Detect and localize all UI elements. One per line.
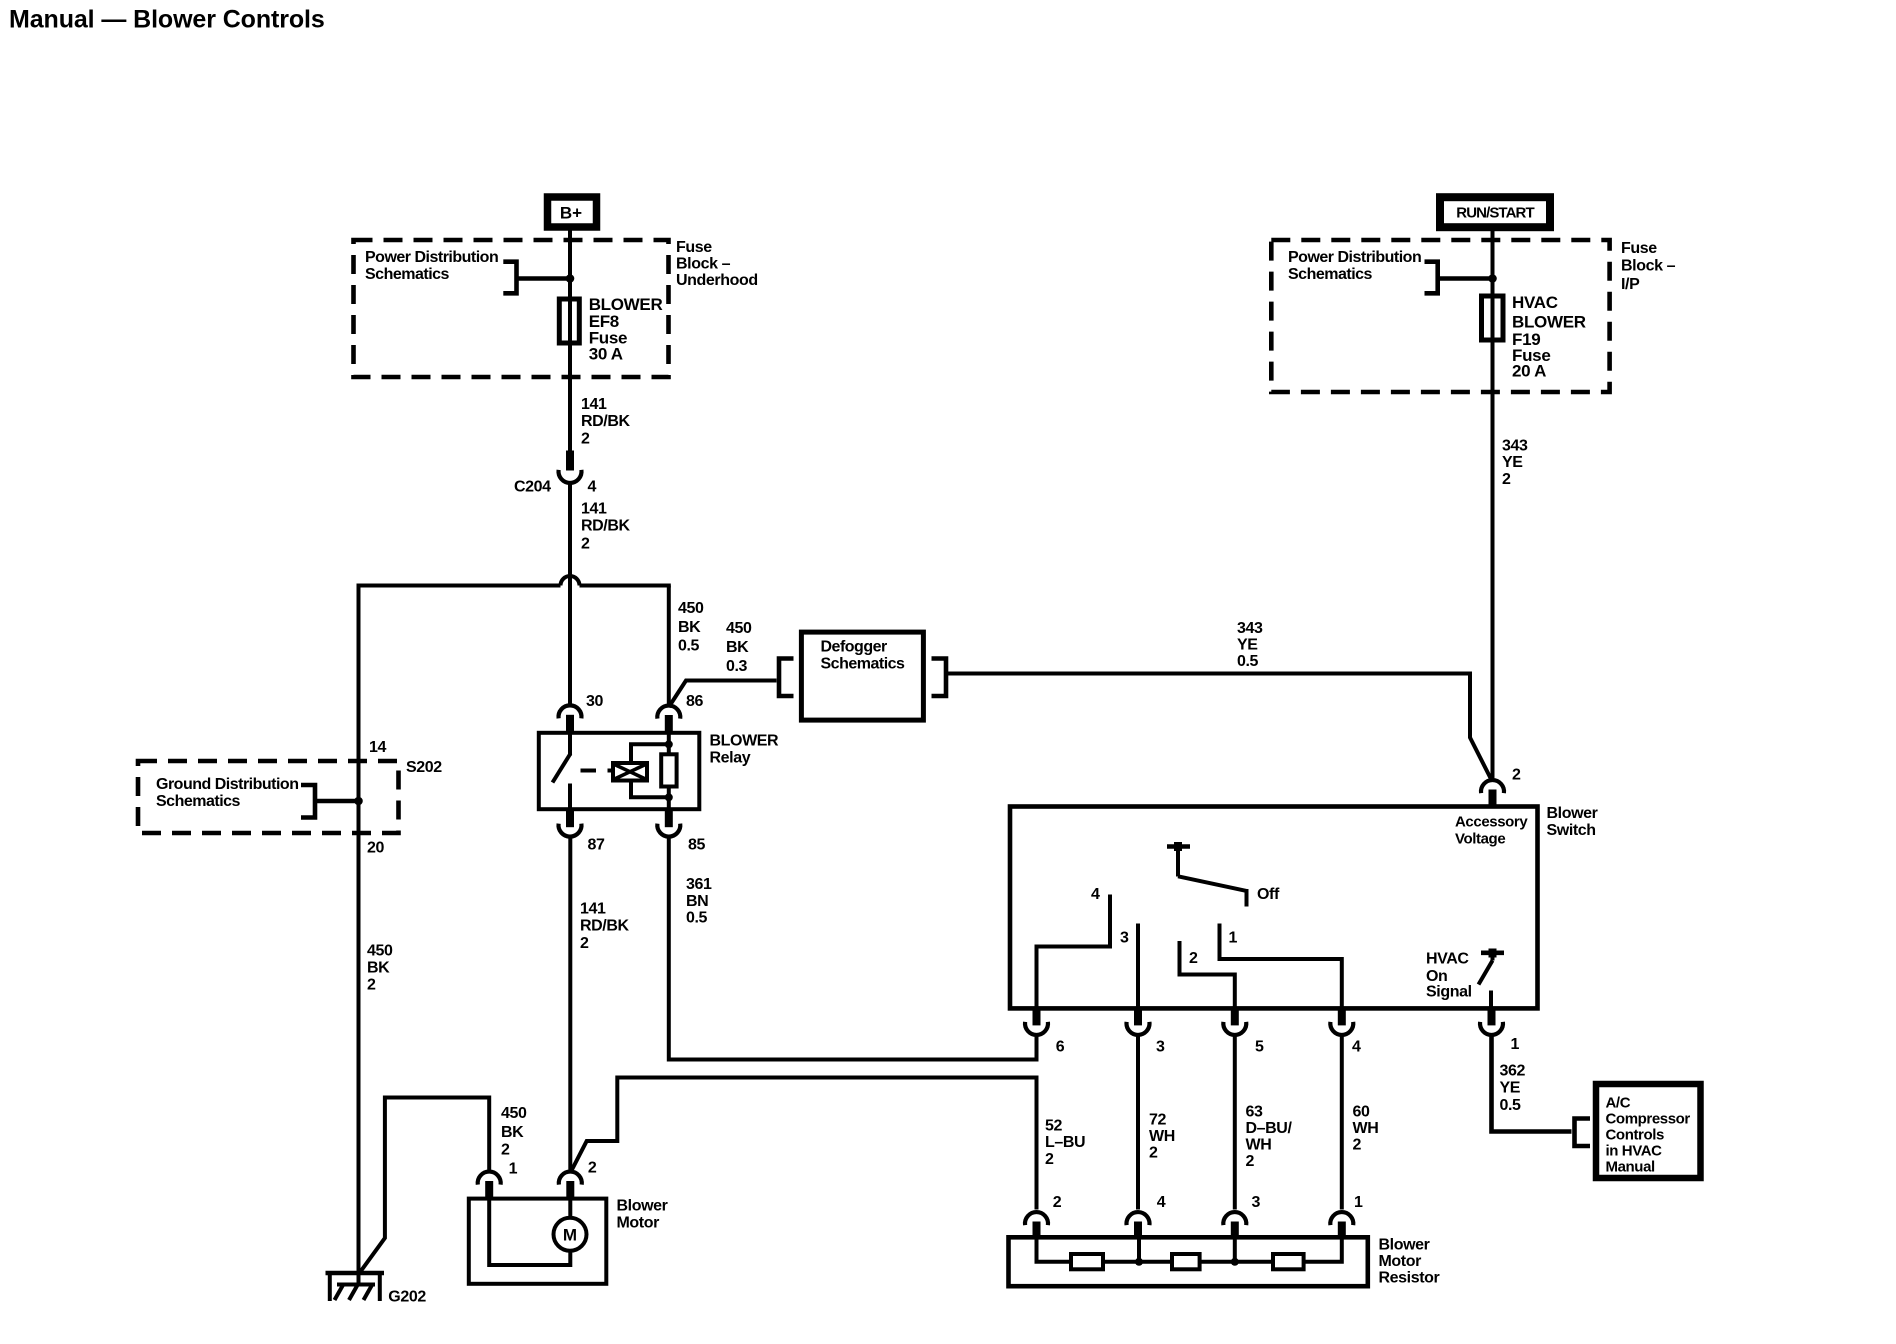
svg-text:YE: YE	[1502, 454, 1523, 471]
label BLOWER Relay	[710, 733, 780, 767]
svg-text:6: 6	[1056, 1039, 1065, 1056]
wire label 141 RD/BK 2 (below C204)	[581, 501, 631, 553]
svg-text:141: 141	[580, 901, 606, 918]
svg-text:On: On	[1426, 968, 1447, 985]
svg-text:RD/BK: RD/BK	[581, 413, 631, 430]
resistor element 1	[1071, 1254, 1103, 1269]
svg-text:3: 3	[1156, 1039, 1165, 1056]
node junction dot S202	[354, 797, 363, 806]
motor M symbol	[554, 1218, 587, 1251]
svg-text:Ground Distribution: Ground Distribution	[156, 776, 298, 793]
svg-text:343: 343	[1502, 438, 1528, 455]
wire ground horizontal right segment	[580, 584, 671, 588]
relay internal resistor	[661, 754, 676, 786]
svg-text:450: 450	[367, 943, 393, 960]
svg-text:2: 2	[1189, 950, 1198, 967]
node dot resistor b	[1231, 1258, 1239, 1266]
wire coil bottom lead	[631, 781, 669, 798]
resistor pin 4 connector	[1127, 1212, 1150, 1237]
svg-text:1: 1	[1511, 1036, 1520, 1053]
svg-text:D–BU/: D–BU/	[1246, 1120, 1293, 1137]
bracket to power distribution (right)	[1425, 262, 1438, 294]
node junction dot on RUN/START wire	[1488, 274, 1497, 283]
wire label 72 WH 2	[1149, 1112, 1175, 1162]
contact 3 with wire to pin 3	[1136, 924, 1140, 1009]
wire label 450 BK 0.3	[726, 620, 752, 675]
contact 4 with wire to pin 6	[1037, 895, 1111, 1009]
svg-text:20: 20	[367, 840, 384, 857]
svg-text:2: 2	[501, 1142, 510, 1159]
pin 87 connector	[559, 809, 582, 836]
svg-text:2: 2	[581, 431, 590, 448]
label Fuse Block IP	[1621, 240, 1676, 293]
svg-text:WH: WH	[1246, 1137, 1272, 1154]
svg-text:RD/BK: RD/BK	[581, 518, 631, 535]
label Fuse Block Underhood	[676, 239, 758, 289]
relay switch blade	[553, 733, 571, 809]
svg-text:RD/BK: RD/BK	[580, 918, 630, 935]
wire RUN/START down through fuse to switch pin 2	[1491, 227, 1495, 779]
svg-text:86: 86	[686, 693, 703, 710]
svg-text:60: 60	[1353, 1104, 1370, 1121]
svg-text:2: 2	[1512, 767, 1521, 784]
power symbol RUN/START	[1440, 197, 1550, 227]
wire motor pin 1 ground path (450 BK)	[361, 1098, 490, 1272]
bracket out of defogger box	[932, 659, 947, 697]
label Power Distribution Schematics (left)	[365, 249, 498, 283]
resistor pin 4 internal lead	[1137, 1237, 1141, 1262]
wire 343 YE 0.5 long horizontal	[946, 674, 1491, 780]
label Blower Motor Resistor	[1379, 1237, 1440, 1287]
svg-text:HVAC: HVAC	[1426, 951, 1469, 968]
relay coil	[613, 763, 647, 781]
svg-text:Power Distribution: Power Distribution	[365, 249, 498, 266]
blower motor box	[469, 1199, 607, 1284]
svg-text:2: 2	[367, 977, 376, 994]
svg-text:Signal: Signal	[1426, 984, 1472, 1001]
ground G202	[326, 1271, 385, 1301]
svg-text:Off: Off	[1257, 886, 1280, 903]
svg-text:M: M	[563, 1226, 577, 1245]
svg-text:Compressor: Compressor	[1606, 1111, 1691, 1128]
HVAC on signal switch	[1479, 949, 1505, 1009]
svg-text:HVAC: HVAC	[1512, 293, 1558, 312]
power symbol B+	[548, 197, 597, 227]
wire label 343 YE 0.5	[1237, 620, 1263, 670]
svg-text:Defogger: Defogger	[821, 639, 888, 656]
wire label 141 RD/BK 2 (below relay 87)	[580, 901, 630, 953]
svg-text:Motor: Motor	[617, 1215, 660, 1232]
svg-text:Schematics: Schematics	[821, 656, 906, 673]
contact 1 with wire to pin 4	[1220, 924, 1342, 1009]
wire ground vertical to S202 and G202	[357, 584, 361, 1285]
wire label 361 BN 0.5	[686, 876, 712, 927]
resistor internal bus segment d	[1304, 1237, 1342, 1262]
resistor internal bus segment b	[1103, 1260, 1172, 1264]
svg-text:2: 2	[1502, 471, 1511, 488]
rotary switch arm to Off	[1178, 876, 1247, 906]
wire bracket to node (right)	[1438, 276, 1493, 281]
wire switch pin 5 to resistor pin 3 (63 D-BU/WH)	[1233, 1034, 1237, 1210]
svg-text:Block –: Block –	[1621, 258, 1676, 275]
svg-text:BK: BK	[726, 639, 749, 656]
svg-text:S202: S202	[406, 759, 442, 776]
svg-text:Schematics: Schematics	[365, 266, 450, 283]
resistor pin 3 internal lead	[1233, 1237, 1237, 1262]
label Blower Motor	[617, 1198, 668, 1232]
label BLOWER EF8 Fuse 30 A	[589, 295, 663, 364]
svg-text:0.5: 0.5	[1237, 653, 1259, 670]
label A/C Compressor Controls in HVAC Manual	[1606, 1095, 1691, 1176]
svg-text:14: 14	[369, 739, 386, 756]
node dot coil top	[665, 740, 673, 748]
svg-text:3: 3	[1252, 1194, 1261, 1211]
pin 86 connector	[657, 706, 680, 733]
fuse block underhood dashed box	[354, 240, 669, 377]
node junction dot on B+ wire	[566, 274, 575, 283]
wire bracket to splice node	[315, 799, 359, 804]
wire switch pin 1 to AC compressor (362 YE)	[1492, 1034, 1572, 1132]
svg-text:Schematics: Schematics	[1288, 266, 1373, 283]
defogger schematics box	[801, 632, 923, 720]
svg-text:362: 362	[1500, 1063, 1526, 1080]
svg-text:4: 4	[588, 479, 597, 496]
svg-text:20 A: 20 A	[1512, 362, 1546, 381]
svg-text:BK: BK	[367, 960, 390, 977]
wire switch pin 3 to resistor pin 4 (72 WH)	[1136, 1034, 1140, 1210]
svg-text:30: 30	[586, 693, 603, 710]
label Blower Switch	[1547, 805, 1598, 839]
svg-text:2: 2	[581, 536, 590, 553]
wire label 60 WH 2	[1353, 1104, 1379, 1154]
motor pin 1 connector	[478, 1172, 501, 1199]
label HVAC On Signal	[1426, 951, 1472, 1001]
fuse block IP dashed box	[1271, 240, 1609, 392]
svg-text:Underhood: Underhood	[676, 272, 758, 289]
wire relay 87 to blower motor pin 2 (141 RD/BK)	[568, 836, 572, 1172]
resistor element 3	[1273, 1254, 1304, 1269]
pin 1 connector (switch bottom)	[1480, 1008, 1503, 1035]
svg-text:63: 63	[1246, 1104, 1263, 1121]
svg-text:450: 450	[678, 600, 704, 617]
svg-text:2: 2	[1353, 1137, 1362, 1154]
pin 6 connector (switch bottom)	[1025, 1008, 1048, 1035]
svg-text:Fuse: Fuse	[1621, 240, 1657, 257]
node dot resistor a	[1135, 1258, 1143, 1266]
svg-text:C204: C204	[514, 479, 551, 496]
svg-text:52: 52	[1045, 1118, 1062, 1135]
wire 450 BK 0.5 vertical to pin 86	[667, 586, 671, 708]
svg-text:WH: WH	[1149, 1128, 1175, 1145]
svg-text:2: 2	[1149, 1145, 1158, 1162]
svg-text:87: 87	[588, 837, 605, 854]
svg-text:Blower: Blower	[617, 1198, 668, 1215]
wire motor pin 2 branch to resistor pin 2 (52 L-BU)	[571, 1078, 1037, 1210]
bracket to power distribution (left)	[503, 262, 516, 294]
rotary switch common contact	[1167, 842, 1190, 877]
bracket into defogger box	[779, 659, 794, 697]
bracket into AC compressor box	[1575, 1119, 1591, 1147]
pin 85 connector	[657, 809, 680, 836]
svg-text:72: 72	[1149, 1112, 1166, 1129]
wire label 450 BK 2 (motor)	[501, 1105, 527, 1159]
svg-text:BLOWER: BLOWER	[1512, 313, 1586, 332]
wire bracket to node (left)	[517, 276, 571, 281]
svg-text:2: 2	[580, 935, 589, 952]
svg-text:Motor: Motor	[1379, 1253, 1422, 1270]
svg-text:I/P: I/P	[1621, 276, 1640, 293]
pin 2 connector (switch top)	[1481, 780, 1504, 806]
resistor internal bus entry pin 2	[1037, 1237, 1072, 1262]
svg-text:B+: B+	[560, 204, 582, 223]
relay actuation dashed link	[581, 769, 614, 773]
AC compressor controls box	[1596, 1084, 1701, 1178]
svg-text:0.5: 0.5	[1500, 1097, 1522, 1114]
wire switch pin 4 to resistor pin 1 (60 WH)	[1340, 1034, 1344, 1210]
motor pin 2 connector	[559, 1172, 582, 1199]
svg-text:0.3: 0.3	[726, 658, 748, 675]
svg-text:343: 343	[1237, 620, 1263, 637]
resistor internal bus segment c	[1200, 1260, 1273, 1264]
svg-text:361: 361	[686, 876, 712, 893]
svg-text:Blower: Blower	[1379, 1237, 1430, 1254]
svg-text:BK: BK	[501, 1124, 524, 1141]
wire label 63 D-BU/ WH 2	[1246, 1104, 1293, 1171]
label HVAC BLOWER F19 Fuse 20 A	[1512, 293, 1586, 381]
wire label 450 BK 2 (left)	[367, 943, 393, 994]
resistor element 2	[1172, 1254, 1200, 1269]
svg-text:Fuse: Fuse	[676, 239, 712, 256]
svg-text:4: 4	[1352, 1039, 1361, 1056]
label Accessory Voltage	[1455, 814, 1528, 848]
svg-text:141: 141	[581, 501, 607, 518]
motor internal wiring	[489, 1199, 570, 1265]
svg-text:5: 5	[1255, 1039, 1264, 1056]
label Power Distribution Schematics (right)	[1288, 249, 1421, 283]
wire pin85 internal lower	[667, 787, 671, 810]
svg-text:BN: BN	[686, 893, 708, 910]
fuse EF8	[559, 299, 579, 343]
fuse F19	[1482, 296, 1504, 340]
pin 3 connector (switch bottom)	[1127, 1008, 1150, 1035]
wire coil top lead	[631, 744, 669, 763]
wire B+ down through fuse to C204	[568, 227, 572, 451]
svg-text:30 A: 30 A	[589, 345, 623, 364]
svg-text:Manual — Blower Controls: Manual — Blower Controls	[9, 6, 325, 34]
svg-text:0.5: 0.5	[686, 910, 708, 927]
wire ground horizontal left segment	[357, 584, 561, 588]
pin 4 connector (switch bottom)	[1330, 1008, 1353, 1035]
label Defogger Schematics	[821, 639, 906, 673]
svg-text:G202: G202	[388, 1289, 426, 1306]
node dot coil bottom	[665, 793, 673, 801]
wire label 52 L-BU 2	[1045, 1118, 1085, 1169]
connector C204	[559, 451, 582, 483]
svg-text:Power Distribution: Power Distribution	[1288, 249, 1421, 266]
svg-text:WH: WH	[1353, 1120, 1379, 1137]
svg-text:Manual: Manual	[1606, 1159, 1656, 1176]
pin 5 connector (switch bottom)	[1223, 1008, 1246, 1035]
svg-text:2: 2	[588, 1160, 597, 1177]
resistor pin 2 connector	[1025, 1212, 1048, 1237]
svg-text:in HVAC: in HVAC	[1606, 1143, 1663, 1160]
svg-text:141: 141	[581, 396, 607, 413]
wire hop over 141 wire	[561, 576, 580, 586]
svg-text:BLOWER: BLOWER	[710, 733, 780, 750]
svg-text:Schematics: Schematics	[156, 793, 241, 810]
svg-text:YE: YE	[1500, 1080, 1521, 1097]
svg-text:Blower: Blower	[1547, 805, 1598, 822]
wire label 450 BK 0.5	[678, 600, 704, 655]
svg-text:Accessory: Accessory	[1455, 814, 1528, 831]
svg-text:L–BU: L–BU	[1045, 1134, 1085, 1151]
svg-text:Switch: Switch	[1547, 822, 1596, 839]
wire label 343 YE 2	[1502, 438, 1528, 489]
svg-text:RUN/START: RUN/START	[1456, 205, 1534, 222]
svg-text:Block –: Block –	[676, 255, 731, 272]
svg-text:1: 1	[1354, 1194, 1363, 1211]
svg-text:4: 4	[1091, 886, 1100, 903]
svg-text:3: 3	[1120, 930, 1129, 947]
bracket to ground distribution	[301, 785, 315, 818]
wire label 141 RD/BK 2 (above C204)	[581, 396, 631, 448]
blower motor resistor box	[1009, 1237, 1368, 1286]
wire relay 85 to switch pin 6 (361 BN)	[669, 836, 1037, 1060]
svg-text:BK: BK	[678, 619, 701, 636]
svg-text:Resistor: Resistor	[1379, 1270, 1440, 1287]
svg-text:450: 450	[501, 1105, 527, 1122]
svg-text:2: 2	[1053, 1194, 1062, 1211]
svg-text:2: 2	[1246, 1153, 1255, 1170]
motor pin2 internal lead	[568, 1199, 572, 1218]
svg-text:85: 85	[688, 837, 705, 854]
svg-text:0.5: 0.5	[678, 638, 700, 655]
svg-text:A/C: A/C	[1606, 1095, 1631, 1112]
resistor pin 3 connector	[1223, 1212, 1246, 1237]
svg-text:2: 2	[1045, 1151, 1054, 1168]
svg-text:1: 1	[1229, 930, 1238, 947]
relay box	[539, 733, 700, 809]
svg-text:450: 450	[726, 620, 752, 637]
splice S202 dashed box	[138, 761, 399, 833]
svg-text:Controls: Controls	[1606, 1127, 1665, 1144]
svg-text:4: 4	[1157, 1194, 1166, 1211]
wire C204 to relay pin 30	[568, 481, 572, 705]
svg-text:Voltage: Voltage	[1455, 831, 1505, 848]
resistor pin 1 connector	[1330, 1212, 1353, 1237]
contact 2 with wire to pin 5	[1180, 941, 1235, 1008]
pin 30 connector	[559, 705, 582, 732]
label Ground Distribution Schematics	[156, 776, 298, 810]
blower switch box	[1010, 807, 1538, 1009]
svg-text:Relay: Relay	[710, 750, 751, 767]
svg-text:1: 1	[509, 1161, 518, 1178]
wire label 362 YE 0.5	[1500, 1063, 1526, 1115]
wire pin86 internal upper	[667, 733, 671, 755]
wire diagonal branch to defogger	[669, 681, 777, 708]
svg-text:YE: YE	[1237, 637, 1258, 654]
